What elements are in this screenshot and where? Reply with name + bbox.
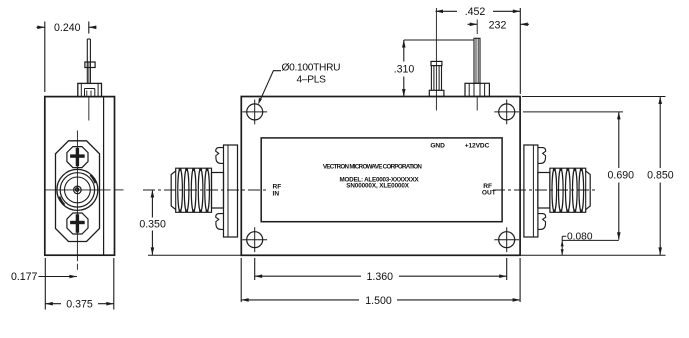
mounting hole top-right circle [499,104,515,120]
svg-text:IN: IN [273,190,280,197]
svg-text:0.850: 0.850 [647,170,674,182]
GND feedthrough pin base [429,90,444,96]
RF IN connector nut [212,173,224,209]
RF IN connector bottom jack screw head [216,214,224,230]
dimension .310 dimension line [403,40,405,62]
mounting hole bottom-left crosshair [242,239,267,241]
dimension .452 dimension line [436,10,521,12]
+12VDC feedthrough pin shaft [474,38,480,83]
left view bottom mounting screw boss [67,213,88,234]
RF IN connector top jack screw head [216,148,224,164]
svg-text:GND: GND [430,142,445,149]
left view SMA connector mid ring [60,173,94,207]
dimension 1.500 right extension line [519,258,521,302]
mounting hole bottom-left circle [247,232,263,248]
dimension 232 left arrow [468,23,478,25]
dimension 232 right arrow [520,23,529,25]
left view connector flange obround [56,141,100,242]
RF IN connector centerline [143,189,269,191]
svg-text:0.375: 0.375 [66,299,93,311]
RF IN barrel thread 2 [184,169,189,212]
dimension 1.360 right extension line [506,258,508,280]
svg-text:0.080: 0.080 [567,231,593,242]
RF IN barrel thread 4 [198,169,203,212]
RF IN connector flange plate [224,145,238,237]
dimension 0.177 dimension line [39,276,77,278]
+12VDC feedthrough pin base [465,83,489,96]
svg-text:OUT: OUT [482,190,496,197]
left view dimension 0.240 extension line (pin centerline) [88,22,90,34]
GND pin centerline / .452 extension line [435,8,437,111]
svg-text:4–PLS: 4–PLS [297,74,327,85]
dimension 1.500 dimension line [241,299,520,301]
svg-text:0.350: 0.350 [139,219,166,231]
mounting hole top-left circle [247,104,263,120]
dimension 0.375 left extension line [44,258,46,310]
left view SMA center pin [74,186,82,194]
left view SMA connector inner ring [65,177,91,203]
dimension 1.500 left extension line [240,258,242,302]
left view centerline below body [76,255,78,271]
bottom screw row extension line [562,239,619,241]
svg-text:.310: .310 [394,64,415,76]
dimension .452 right extension line (body right edge) [519,8,521,94]
svg-text:+12VDC: +12VDC [465,142,490,149]
RF IN barrel thread 1 [178,169,183,212]
GND feedthrough pin insulator tube [430,66,432,91]
dimension 0.240 dimension line left arrow [37,26,45,28]
top screw row extension line (0.690) [523,111,623,113]
left view feedthrough pin hex nut [85,62,95,68]
svg-text:232: 232 [489,19,507,31]
dimension 0.375 right extension line [113,258,115,310]
dimension 0.350 dimension line [151,190,153,218]
svg-text:.452: .452 [465,6,486,18]
body top edge extension line (0.850) [522,96,666,98]
mounting hole bottom-right circle [499,232,515,248]
RF OUT connector top jack screw head [538,148,546,164]
mounting hole bottom-right crosshair [494,239,519,241]
RF OUT barrel thread 4 [559,169,564,212]
RF OUT barrel thread 5 [552,169,557,212]
left view feedthrough pin base flange [78,83,102,96]
left view bottom mounting screw phillips cross [76,214,79,232]
dimension 0.240 dimension line right arrow [89,26,97,28]
RF OUT connector threaded barrel [550,168,590,212]
dimension 0.850 dimension line [659,97,661,169]
left view pin centerline inside body [88,97,90,121]
left view top mounting screw phillips cross [76,148,79,166]
left view connector horizontal centerline [45,189,110,191]
left view connector vertical centerline [76,131,78,256]
svg-text:0.690: 0.690 [608,170,635,182]
dimension 0.375 dimension line [45,303,114,305]
left view top mounting screw boss [67,147,88,168]
left view SMA connector outer ring [57,169,98,210]
dimension 0.080 bracket [562,235,566,237]
svg-text:1.360: 1.360 [367,271,394,283]
svg-text:Ø0.100THRU: Ø0.100THRU [282,63,341,74]
RF IN barrel thread 5 [205,169,210,212]
label plate inner rectangle [261,138,502,222]
GND feedthrough pin cap [431,61,442,65]
RF OUT connector bottom jack screw head [538,214,546,230]
dimension 1.360 dimension line [255,275,507,277]
left view feedthrough pin shaft [86,39,88,83]
body bottom edge extension line [520,254,665,256]
dimension text 0.690 [606,169,636,180]
dimension text .310 [392,63,416,74]
hole callout leader line [259,71,281,102]
left view body lid parting line [103,97,105,256]
RF IN barrel thread 3 [191,169,196,212]
mounting hole top-left crosshair [242,111,267,113]
RF OUT connector nut [538,173,550,209]
left view dimension 0.240 extension line (body left edge) [44,22,46,93]
RF OUT barrel thread 2 [573,169,578,212]
RF IN connector threaded barrel [171,168,211,212]
RF OUT connector centerline [493,189,598,191]
body bottom left extension line (0.350) [148,254,241,256]
left view SMA knurl hatch SW [60,197,65,205]
main body outline [241,97,520,256]
svg-text:1.500: 1.500 [365,295,392,307]
mounting hole top-right crosshair [494,111,519,113]
left view body outline [45,97,115,256]
dimension 1.360 left extension line [254,258,256,280]
RF OUT barrel thread 3 [566,169,571,212]
RF OUT barrel thread 1 [579,169,584,212]
RF OUT connector flange plate [524,145,538,237]
svg-text:SN00000X, XLE0000X: SN00000X, XLE0000X [346,182,410,189]
left view SMA knurl hatch NE [90,175,95,183]
dimension .310 top extension line [404,39,474,41]
svg-text:VECTRON MICROWAVE CORPORATION: VECTRON MICROWAVE CORPORATION [323,163,423,170]
svg-text:0.177: 0.177 [11,271,38,283]
dimension 0.690 dimension line [618,112,620,168]
svg-text:0.240: 0.240 [54,22,81,34]
+12VDC pin centerline above (232 extension) [476,20,478,35]
+12VDC pin centerline inside body [476,97,478,111]
dimension text 0.850 [646,169,676,180]
